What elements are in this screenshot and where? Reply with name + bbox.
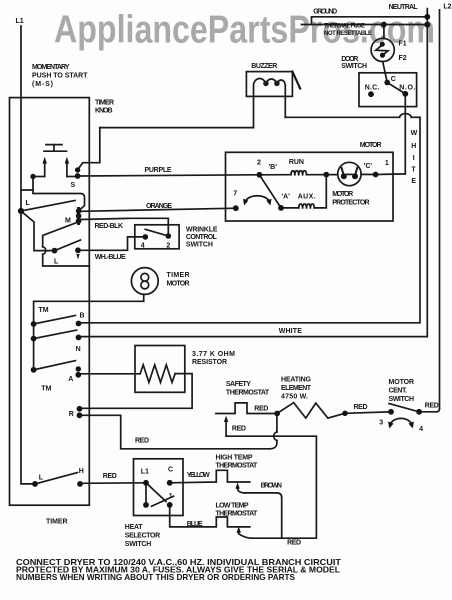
svg-text:S: S (71, 182, 76, 189)
svg-text:RED: RED (103, 473, 117, 480)
svg-text:N.O.: N.O. (399, 85, 415, 92)
svg-text:PURPLE: PURPLE (145, 167, 172, 174)
svg-text:NEUTRAL: NEUTRAL (389, 4, 419, 11)
svg-text:H: H (79, 468, 84, 475)
svg-text:RED: RED (135, 438, 149, 445)
svg-text:CONTROL: CONTROL (186, 234, 218, 241)
svg-text:AppliancePartsPros.com: AppliancePartsPros.com (54, 8, 435, 51)
svg-text:LOW TEMP: LOW TEMP (216, 503, 249, 510)
svg-text:MOMENTARY: MOMENTARY (32, 64, 70, 71)
svg-text:RED: RED (254, 406, 268, 413)
svg-text:NUMBERS WHEN WRITING ABOUT THI: NUMBERS WHEN WRITING ABOUT THIS DRYER OR… (16, 572, 295, 582)
svg-text:RUN: RUN (289, 159, 304, 166)
svg-text:RED-BLK: RED-BLK (95, 223, 124, 230)
svg-text:MOTOR: MOTOR (360, 142, 382, 149)
svg-text:L1: L1 (141, 469, 149, 476)
svg-text:(M-S): (M-S) (32, 81, 53, 88)
svg-text:TIMER: TIMER (46, 519, 68, 526)
svg-text:THERMOSTAT: THERMOSTAT (216, 511, 259, 518)
svg-text:MOTOR: MOTOR (167, 281, 190, 288)
svg-text:7: 7 (233, 191, 237, 198)
svg-text:RED: RED (287, 540, 301, 547)
svg-text:PUSH TO START: PUSH TO START (32, 73, 88, 80)
svg-text:SAFETY: SAFETY (226, 381, 251, 388)
svg-text:SELECTOR: SELECTOR (125, 533, 160, 540)
svg-text:CENT.: CENT. (389, 388, 408, 395)
svg-text:HIGH TEMP: HIGH TEMP (216, 455, 253, 462)
svg-text:W: W (411, 130, 418, 137)
svg-text:GROUND: GROUND (313, 9, 337, 16)
svg-text:'A': 'A' (282, 194, 291, 201)
svg-text:THERMOSTAT: THERMOSTAT (226, 390, 270, 397)
svg-text:HEAT: HEAT (125, 524, 143, 531)
svg-text:B: B (80, 313, 85, 320)
svg-text:TIMER: TIMER (167, 272, 190, 279)
svg-text:RED: RED (232, 426, 246, 433)
svg-text:1: 1 (169, 493, 173, 500)
svg-text:E: E (411, 178, 416, 185)
svg-text:SWITCH: SWITCH (125, 541, 152, 548)
svg-text:SWITCH: SWITCH (341, 63, 367, 70)
svg-text:AUX.: AUX. (298, 194, 316, 201)
svg-text:RESISTOR: RESISTOR (192, 359, 227, 366)
svg-text:M: M (65, 218, 71, 225)
svg-text:WRINKLE: WRINKLE (186, 227, 218, 234)
svg-text:BLUE: BLUE (187, 521, 203, 528)
svg-text:C: C (391, 76, 396, 83)
svg-text:THERMOSTAT: THERMOSTAT (216, 463, 259, 470)
svg-text:4750 W.: 4750 W. (281, 394, 308, 401)
svg-text:C: C (168, 467, 173, 474)
svg-text:KNOB: KNOB (95, 108, 113, 115)
svg-text:N.C.: N.C. (365, 85, 380, 92)
svg-text:TIMER: TIMER (95, 100, 114, 107)
svg-text:R: R (69, 411, 74, 418)
svg-text:3.77 K OHM: 3.77 K OHM (192, 351, 235, 358)
svg-text:NOT RESETTABLE: NOT RESETTABLE (324, 31, 372, 37)
svg-text:L2: L2 (443, 3, 451, 10)
svg-text:H: H (411, 143, 416, 150)
svg-text:'B': 'B' (269, 164, 278, 171)
svg-text:THERMAL FUSE: THERMAL FUSE (324, 24, 365, 30)
svg-text:L1: L1 (16, 18, 24, 25)
svg-text:N: N (76, 346, 81, 353)
svg-text:1: 1 (385, 160, 389, 167)
svg-text:BUZZER: BUZZER (251, 63, 277, 70)
svg-text:T: T (411, 167, 416, 174)
svg-text:I: I (413, 155, 415, 162)
svg-text:RED: RED (425, 403, 439, 410)
svg-text:SWITCH: SWITCH (186, 242, 213, 249)
svg-text:SWITCH: SWITCH (389, 396, 415, 403)
svg-text:BROWN: BROWN (261, 483, 282, 490)
svg-text:MOTOR: MOTOR (389, 379, 415, 386)
svg-text:TM: TM (41, 386, 51, 393)
svg-text:RED: RED (354, 404, 368, 411)
svg-text:4: 4 (419, 426, 423, 433)
svg-text:WH.-BLUE: WH.-BLUE (95, 254, 126, 261)
svg-text:2: 2 (166, 242, 170, 249)
svg-text:'C': 'C' (364, 163, 373, 170)
svg-text:YELLOW: YELLOW (187, 472, 210, 479)
svg-text:ORANGE: ORANGE (146, 203, 172, 210)
svg-text:2: 2 (257, 160, 261, 167)
svg-text:MOTOR: MOTOR (332, 191, 353, 198)
svg-text:L: L (39, 475, 44, 482)
svg-text:PROTECTOR: PROTECTOR (332, 200, 369, 207)
svg-text:F1: F1 (399, 41, 407, 48)
svg-text:WHITE: WHITE (279, 328, 303, 335)
svg-text:3: 3 (379, 420, 383, 427)
svg-text:L: L (54, 259, 59, 266)
svg-text:DOOR: DOOR (341, 56, 358, 63)
svg-text:HEATING: HEATING (281, 377, 312, 384)
svg-text:F2: F2 (399, 55, 407, 62)
svg-text:4: 4 (141, 242, 145, 249)
svg-text:A: A (68, 376, 73, 383)
svg-text:ELEMENT: ELEMENT (281, 385, 312, 392)
svg-text:TM: TM (39, 307, 49, 314)
svg-text:L: L (26, 200, 31, 207)
